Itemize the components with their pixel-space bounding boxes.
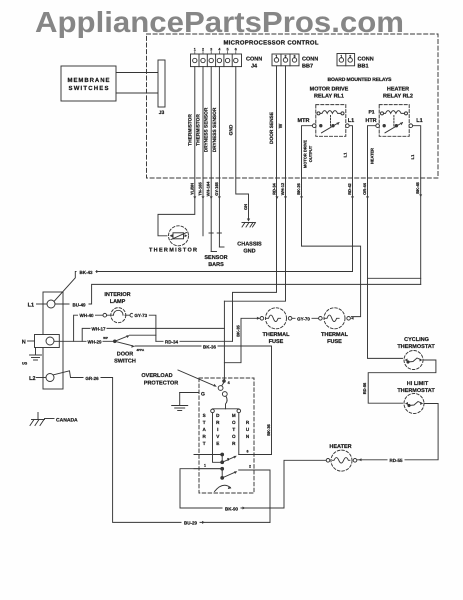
svg-text:L1: L1 — [343, 152, 348, 157]
svg-text:E: E — [216, 441, 219, 446]
wire W vertical to motor pin4 — [223, 301, 225, 380]
svg-text:1: 1 — [276, 55, 278, 59]
svg-text:1: 1 — [340, 55, 342, 59]
svg-text:L1: L1 — [348, 118, 354, 124]
wire door switch BK-36 — [135, 346, 272, 455]
wire membrane to J3 upper — [116, 72, 158, 74]
relay RL2 — [376, 105, 413, 137]
door switch S2 — [103, 335, 156, 352]
wire L1 BK-43 to RL1 — [54, 272, 353, 302]
svg-text:DRYNESS SENSOR: DRYNESS SENSOR — [204, 107, 210, 152]
svg-text:R: R — [203, 434, 207, 439]
svg-text:LAMP: LAMP — [110, 299, 126, 305]
wire L2 GR-26 to bottom — [54, 371, 271, 523]
hi limit thermostat TS2 — [404, 394, 424, 414]
svg-text:GR-26: GR-26 — [85, 376, 99, 381]
wire GY-70 between fuses — [292, 317, 319, 319]
svg-text:HEATER: HEATER — [387, 87, 409, 93]
svg-text:GY-70: GY-70 — [297, 317, 310, 322]
svg-text:3: 3 — [210, 48, 212, 52]
svg-text:BK-43: BK-43 — [79, 270, 93, 275]
terminal L1 — [47, 300, 55, 308]
svg-text:L1: L1 — [28, 302, 34, 308]
svg-text:4PPA: 4PPA — [137, 348, 145, 352]
svg-text:HI LIMIT: HI LIMIT — [407, 381, 429, 387]
svg-text:SWITCHES: SWITCHES — [69, 85, 109, 92]
wire RL2 L1 stub — [368, 277, 421, 279]
svg-text:THERMOSTAT: THERMOSTAT — [397, 344, 435, 350]
wire cycling to hi-limit — [368, 360, 436, 403]
svg-text:A: A — [203, 427, 207, 432]
wire J4 pin3 to sensor bar — [210, 67, 212, 233]
svg-text:OVERLOAD: OVERLOAD — [141, 373, 172, 379]
svg-text:WP: WP — [103, 336, 108, 340]
svg-text:OR-44: OR-44 — [362, 182, 367, 195]
wire RL1 L1 — [349, 126, 352, 272]
svg-text:UG: UG — [22, 362, 28, 366]
earth ground under N — [30, 348, 42, 361]
connector BB7 — [272, 54, 318, 70]
svg-text:RD-34: RD-34 — [272, 182, 277, 194]
svg-text:R: R — [246, 420, 250, 425]
wire lamp left WH-40 — [74, 315, 103, 341]
svg-text:U: U — [246, 427, 250, 432]
svg-text:PROTECTOR: PROTECTOR — [144, 381, 178, 387]
svg-text:R: R — [216, 420, 220, 425]
svg-text:CHASSIS: CHASSIS — [237, 242, 262, 248]
svg-text:CANADA: CANADA — [56, 418, 78, 424]
terminal block TB1 — [43, 292, 63, 389]
svg-text:V: V — [216, 434, 220, 439]
overload protector leader line — [178, 370, 215, 386]
terminal L2 — [46, 374, 54, 382]
svg-text:MICROPROCESSOR CONTROL: MICROPROCESSOR CONTROL — [224, 40, 319, 47]
centrifugal actuator arc — [215, 485, 231, 491]
svg-text:1: 1 — [204, 464, 206, 468]
svg-text:4: 4 — [218, 48, 220, 52]
motor winding — [211, 409, 241, 463]
svg-text:THERMAL: THERMAL — [321, 332, 349, 338]
svg-text:N: N — [246, 434, 250, 439]
svg-text:4: 4 — [228, 380, 231, 385]
svg-text:HTR: HTR — [365, 118, 376, 124]
svg-text:S: S — [203, 413, 206, 418]
thermal fuse F1 — [224, 308, 292, 363]
svg-text:T: T — [203, 441, 206, 446]
svg-text:SENSOR: SENSOR — [204, 255, 227, 261]
rotated wire color labels below box — [189, 181, 420, 436]
svg-text:YL/BN: YL/BN — [189, 183, 194, 195]
wire J4 pin6 GND to chassis — [236, 67, 249, 220]
svg-text:3: 3 — [227, 458, 229, 462]
svg-text:DOOR: DOOR — [117, 352, 134, 358]
svg-text:SWITCH: SWITCH — [114, 359, 136, 365]
svg-text:BK-36: BK-36 — [266, 423, 271, 435]
svg-text:J3: J3 — [159, 110, 165, 116]
svg-text:GN: GN — [243, 204, 248, 210]
svg-text:N: N — [22, 339, 26, 345]
svg-text:WH-29: WH-29 — [87, 340, 101, 345]
svg-text:CONN: CONN — [358, 57, 374, 63]
microprocessor control box U1 — [147, 34, 439, 178]
svg-text:BK-26: BK-26 — [296, 182, 301, 194]
wire BB7 pin2 W — [224, 66, 285, 301]
svg-text:RELAY RL2: RELAY RL2 — [383, 94, 413, 100]
svg-text:BOARD MOUNTED RELAYS: BOARD MOUNTED RELAYS — [328, 77, 393, 83]
motor pin 4 — [223, 380, 226, 383]
svg-text:DOOR SENSE: DOOR SENSE — [269, 111, 275, 144]
svg-text:BU-49: BU-49 — [72, 303, 86, 308]
motor drive output rotated label — [303, 140, 314, 168]
svg-text:L1: L1 — [410, 154, 415, 159]
svg-text:J4: J4 — [251, 64, 258, 70]
svg-text:W: W — [278, 123, 284, 128]
svg-text:RD-55: RD-55 — [389, 458, 403, 463]
svg-text:1: 1 — [194, 48, 196, 52]
wire J4 pin2 to thermistor — [202, 67, 204, 236]
rotated labels pin wires inside box — [187, 107, 284, 152]
cycling thermostat TS1 — [404, 351, 423, 370]
svg-text:MOTOR DRIVE: MOTOR DRIVE — [310, 87, 349, 93]
svg-text:HEATER: HEATER — [329, 444, 351, 450]
svg-text:6: 6 — [235, 48, 237, 52]
svg-text:INTERIOR: INTERIOR — [104, 292, 130, 298]
svg-text:CONN: CONN — [302, 57, 318, 63]
svg-text:2: 2 — [349, 55, 351, 59]
svg-text:WH-40: WH-40 — [79, 313, 93, 318]
svg-text:GND: GND — [243, 249, 255, 255]
wire heater left to motor BK-90 — [180, 460, 326, 508]
svg-text:THERMISTOR: THERMISTOR — [187, 114, 193, 146]
wire WH-17 — [82, 328, 224, 341]
svg-text:BU-29: BU-29 — [184, 521, 198, 526]
svg-text:2: 2 — [202, 48, 204, 52]
membrane switches box S1 — [61, 66, 116, 101]
svg-text:R: R — [232, 441, 236, 446]
canada ground symbol — [30, 413, 54, 426]
svg-text:BB7: BB7 — [302, 64, 313, 70]
svg-text:WH-17: WH-17 — [91, 327, 105, 332]
svg-text:WH-164: WH-164 — [206, 181, 211, 196]
svg-text:RD-56: RD-56 — [362, 382, 367, 394]
svg-text:THERMISTOR: THERMISTOR — [196, 114, 202, 146]
wire J4 pin4 to sensor bar — [218, 67, 220, 233]
wire J4 pin1 to thermistor — [158, 67, 195, 236]
svg-text:BK-90: BK-90 — [225, 506, 239, 511]
svg-text:T: T — [232, 427, 235, 432]
svg-text:BB1: BB1 — [358, 64, 369, 70]
svg-text:G: G — [201, 391, 205, 397]
terminal N — [35, 335, 60, 348]
svg-text:6: 6 — [247, 450, 249, 454]
svg-text:MTR: MTR — [298, 118, 310, 124]
wire RL2 L1 — [413, 126, 421, 285]
svg-text:CYCLING: CYCLING — [404, 337, 429, 343]
connector J4 — [191, 48, 263, 70]
connector J3 — [158, 60, 165, 107]
svg-text:D: D — [216, 413, 220, 418]
svg-text:CONN: CONN — [246, 57, 262, 63]
svg-text:THERMAL: THERMAL — [263, 332, 291, 338]
sensor bars — [209, 233, 224, 252]
wire RL1 MTR output — [302, 126, 361, 317]
wire L1 BU-49 L1 bus — [55, 284, 421, 304]
svg-text:L1: L1 — [416, 118, 422, 124]
motor G terminal and ground — [180, 392, 199, 394]
wire RL2 HTR to cycling thermostat — [368, 126, 403, 359]
motor internal labels START DRIVE MOTOR RUN — [203, 413, 250, 446]
svg-text:L2: L2 — [29, 376, 35, 382]
svg-text:T: T — [203, 420, 206, 425]
svg-text:THERMOSTAT: THERMOSTAT — [397, 388, 435, 394]
drive motor box M1 — [199, 378, 254, 493]
interior lamp DS1 — [103, 308, 134, 323]
wire N WH-29 to door switch — [54, 340, 115, 342]
svg-text:I: I — [217, 427, 218, 432]
wire lamp right GY-73 to door switch — [134, 315, 156, 341]
svg-text:RELAY RL1: RELAY RL1 — [314, 94, 344, 100]
thermistor RT1 — [169, 226, 189, 246]
heater HE1 — [326, 450, 357, 471]
svg-text:GY-165: GY-165 — [214, 181, 219, 195]
svg-text:FUSE: FUSE — [327, 339, 342, 345]
svg-text:RD-42: RD-42 — [347, 182, 352, 194]
svg-text:WH-12: WH-12 — [280, 182, 285, 195]
svg-text:5: 5 — [227, 48, 229, 52]
motor centrifugal switch row 1 — [194, 450, 272, 464]
svg-text:BK-36: BK-36 — [203, 345, 217, 350]
wire hi limit to heater RD-55 — [357, 404, 438, 460]
svg-text:THERMISTOR: THERMISTOR — [149, 248, 197, 254]
svg-text:TN-165: TN-165 — [198, 182, 203, 196]
svg-text:2: 2 — [285, 55, 287, 59]
thermal fuse F2 — [319, 308, 354, 329]
wire membrane to J3 lower — [116, 92, 158, 94]
wire door switch RD-34 — [156, 340, 233, 342]
svg-text:BK-35: BK-35 — [236, 324, 241, 336]
svg-text:2: 2 — [249, 465, 251, 469]
svg-text:DRYNESS SENSOR: DRYNESS SENSOR — [212, 107, 218, 152]
svg-text:3: 3 — [294, 55, 296, 59]
svg-text:RD-34: RD-34 — [165, 340, 179, 345]
svg-text:M: M — [232, 413, 236, 418]
svg-text:O: O — [232, 420, 236, 425]
connector BB1 — [337, 54, 374, 70]
small down arrows on wires — [193, 194, 422, 199]
svg-text:MOTOR DRIVE: MOTOR DRIVE — [303, 140, 308, 168]
svg-text:GND: GND — [228, 124, 234, 135]
svg-text:HEATER: HEATER — [370, 148, 375, 164]
chassis ground symbol — [242, 223, 256, 228]
svg-text:P1: P1 — [368, 110, 374, 116]
overload protector OL1 — [218, 382, 227, 409]
svg-text:FUSE: FUSE — [269, 339, 284, 345]
svg-text:MEMBRANE: MEMBRANE — [68, 77, 110, 84]
svg-text:BK-45: BK-45 — [415, 181, 420, 193]
motor centrifugal switch row 2 — [194, 464, 270, 523]
wire BB7 pin1 door sense RD-34 — [233, 66, 277, 342]
svg-text:OUTPUT: OUTPUT — [308, 145, 313, 162]
svg-text:BARS: BARS — [208, 262, 224, 268]
relay RL1 — [312, 105, 349, 137]
svg-text:O: O — [232, 434, 236, 439]
svg-text:GY-73: GY-73 — [134, 313, 147, 318]
